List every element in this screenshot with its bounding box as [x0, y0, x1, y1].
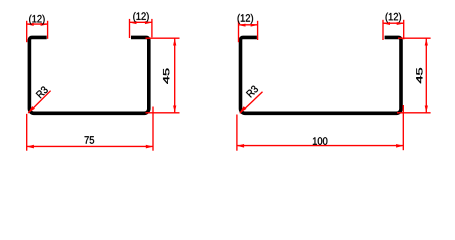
- dim 75 of left profile: extension line right: [152, 107, 154, 151]
- dim (12) right lip of left profile: extension line left: [129, 19, 131, 38]
- dim (12) right lip of left profile: arrow left: [130, 21, 137, 24]
- radius leader R3 of right profile: text: [246, 85, 259, 98]
- dim 45 of left profile: extension line bottom: [146, 112, 180, 114]
- radius leader R3 of left profile: text: [36, 86, 49, 99]
- dim 45 of right profile: extension line top: [398, 37, 431, 39]
- dim (12) right lip of left profile: text: [133, 12, 148, 22]
- dim (12) left lip of right profile: dimension line: [239, 24, 258, 26]
- dim (12) left lip of right profile: arrow right: [251, 24, 258, 27]
- dim (12) left lip of right profile: extension line right: [257, 21, 259, 40]
- dim (12) left lip of left profile: extension line right: [47, 21, 49, 39]
- dim (12) right lip of right profile: extension line right: [403, 20, 405, 40]
- dim (12) right lip of right profile: extension line left: [382, 20, 384, 40]
- dim (12) left lip of left profile: text: [29, 15, 44, 25]
- radius leader R3 of right profile: arrow: [239, 106, 246, 113]
- dim (12) right lip of left profile: dimension line: [130, 21, 152, 23]
- dim 45 of right profile: dimension line: [425, 38, 427, 113]
- dim (12) right lip of left profile: arrow right: [145, 21, 152, 24]
- dim 100 of right profile: text: [313, 137, 327, 145]
- dim (12) right lip of right profile: dimension line: [383, 22, 404, 24]
- dim 45 of left profile: text: [163, 69, 169, 84]
- dim 75 of left profile: arrow right: [146, 145, 153, 149]
- radius leader R3 of right profile: leader line: [240, 92, 263, 114]
- dim (12) left lip of right profile: extension line left: [238, 21, 240, 42]
- dim (12) right lip of right profile: text: [386, 13, 401, 23]
- dim 45 of right profile: arrow down: [425, 106, 428, 113]
- dim 45 of left profile: arrow down: [173, 106, 176, 113]
- dim (12) left lip of left profile: arrow left: [27, 23, 34, 26]
- dim 45 of left profile: dimension line: [174, 38, 176, 113]
- dim 45 of right profile: extension line bottom: [397, 112, 431, 114]
- dim 45 of left profile: arrow up: [173, 38, 176, 45]
- dim 45 of right profile: arrow up: [425, 38, 428, 45]
- dim (12) right lip of left profile: extension line right: [151, 19, 153, 37]
- dim 75 of left profile: arrow left: [27, 145, 34, 149]
- dim 75 of left profile: text: [85, 136, 95, 143]
- dim 100 of right profile: dimension line: [237, 145, 403, 147]
- dim 100 of right profile: arrow left: [237, 144, 244, 148]
- dim (12) left lip of right profile: text: [238, 14, 253, 24]
- dim (12) left lip of left profile: dimension line: [27, 23, 48, 25]
- radius leader R3 of left profile: arrow: [28, 106, 35, 113]
- dim (12) left lip of right profile: arrow left: [239, 24, 246, 27]
- dim (12) left lip of left profile: arrow right: [41, 23, 48, 26]
- dim 100 of right profile: arrow right: [396, 144, 403, 148]
- dim 45 of right profile: text: [416, 68, 422, 83]
- dim (12) right lip of right profile: arrow right: [397, 22, 404, 25]
- dim (12) right lip of right profile: arrow left: [383, 22, 390, 25]
- right C-channel profile outline: [241, 37, 402, 113]
- dim (12) left lip of left profile: extension line left: [26, 21, 28, 42]
- dim 75 of left profile: dimension line: [27, 145, 153, 147]
- dim 45 of left profile: extension line top: [146, 37, 180, 39]
- dim 100 of right profile: extension line left: [236, 115, 238, 151]
- dim 75 of left profile: extension line left: [26, 114, 28, 151]
- left C-channel profile outline: [29, 37, 148, 113]
- dim 100 of right profile: extension line right: [402, 105, 404, 150]
- radius leader R3 of left profile: leader line: [28, 91, 50, 113]
